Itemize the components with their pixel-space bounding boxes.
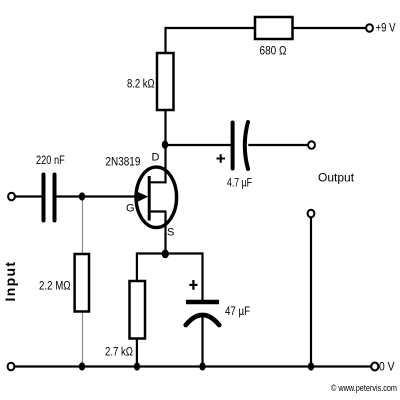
svg-text:+9 V: +9 V [376,22,397,35]
svg-text:8.2 kΩ: 8.2 kΩ [127,78,155,91]
svg-text:S: S [167,227,174,239]
svg-text:2N3819: 2N3819 [106,156,141,169]
svg-text:4.7 µF: 4.7 µF [227,176,252,190]
svg-text:Output: Output [318,171,355,185]
svg-text:2.7 kΩ: 2.7 kΩ [105,346,133,359]
svg-text:© www.petervis.com: © www.petervis.com [331,383,397,393]
svg-text:220 nF: 220 nF [36,154,65,167]
svg-text:D: D [152,152,160,164]
svg-text:Input: Input [2,262,18,302]
svg-text:680 Ω: 680 Ω [260,45,287,58]
svg-text:G: G [126,203,135,215]
svg-text:2.2 MΩ: 2.2 MΩ [39,280,71,293]
svg-text:47 µF: 47 µF [225,305,250,318]
svg-text:0 V: 0 V [379,361,395,374]
